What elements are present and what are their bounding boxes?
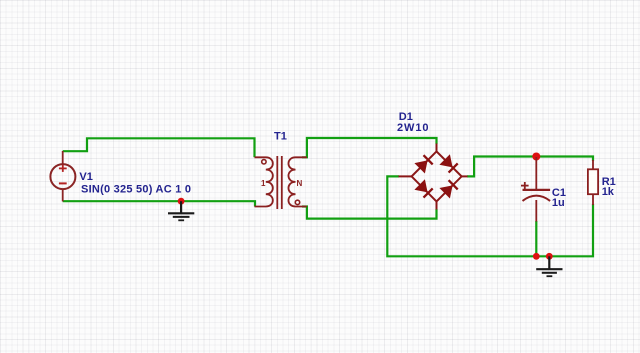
voltage source V1 — [50, 151, 75, 201]
wire T1 secondary bottom to bridge bottom — [302, 207, 437, 219]
resistor R1 — [588, 160, 598, 205]
svg-text:1k: 1k — [602, 186, 615, 198]
junction dot ground rail GND2 — [546, 253, 553, 260]
wire V1 bottom to T1 primary bottom — [63, 201, 255, 206]
bridge diode left-bottom — [414, 179, 432, 197]
bridge diode bottom-right — [439, 180, 457, 198]
transformer T1 primary winding — [255, 157, 273, 206]
svg-text:1u: 1u — [552, 197, 565, 209]
ground GND1 — [168, 201, 194, 220]
transformer T1 core — [277, 156, 282, 209]
wire C1 bottom to ground rail — [535, 221, 537, 256]
svg-text:V1: V1 — [79, 171, 92, 183]
transformer T1 secondary phase dot — [295, 200, 299, 204]
svg-text:SIN(0 325 50) AC 1 0: SIN(0 325 50) AC 1 0 — [81, 183, 191, 195]
wire T1 secondary top to bridge top — [302, 138, 437, 157]
wire V1 top to T1 primary top — [63, 138, 255, 157]
bridge diode left-top — [414, 155, 432, 173]
svg-text:2W10: 2W10 — [397, 122, 429, 134]
svg-text:T1: T1 — [274, 131, 287, 143]
junction dot output rail top — [532, 153, 540, 161]
wire bridge right vertex to output rail — [467, 157, 593, 177]
svg-text:1: 1 — [261, 179, 266, 188]
svg-text:N: N — [297, 179, 303, 188]
junction dot ground rail C1 — [533, 253, 540, 260]
transformer T1 primary phase dot — [262, 160, 266, 164]
ground GND2 — [536, 256, 562, 276]
capacitor C1 — [521, 157, 550, 222]
junction dot V1 ground — [178, 198, 185, 205]
wire bridge left vertex to ground rail — [387, 176, 593, 256]
bridge rectifier D1 frame — [399, 144, 468, 210]
bridge diode top-right — [439, 154, 457, 172]
transformer T1 secondary winding — [288, 157, 306, 206]
